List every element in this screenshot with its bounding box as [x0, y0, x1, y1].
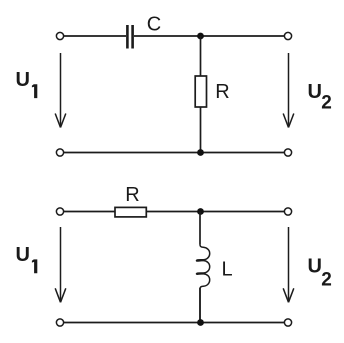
- node A junction dot: [197, 33, 204, 40]
- svg-text:U: U: [308, 81, 322, 103]
- node B junction dot: [197, 149, 204, 156]
- wire node D to bottom-right terminal (circuit 2): [201, 322, 285, 324]
- arrow U2 (circuit 2): [283, 227, 294, 302]
- terminal top-left (circuit 2): [56, 208, 63, 215]
- svg-text:R: R: [215, 81, 229, 103]
- label U1 subscript 1 (circuit 1): [32, 84, 37, 98]
- wire node A to resistor R (circuit 1): [200, 36, 202, 76]
- svg-text:R: R: [125, 184, 139, 206]
- svg-text:U: U: [16, 69, 30, 91]
- svg-text:C: C: [147, 14, 161, 36]
- arrow U2 (circuit 1): [283, 53, 294, 128]
- wire resistor R to node C (circuit 2): [146, 211, 200, 213]
- label U1 subscript 1 (circuit 2): [32, 259, 37, 273]
- terminal top-right (circuit 1): [284, 32, 291, 39]
- wire capacitor to node A: [134, 35, 201, 37]
- terminal top-right (circuit 2): [284, 208, 291, 215]
- svg-text:L: L: [222, 259, 233, 281]
- wire top-left to capacitor (circuit 1): [64, 35, 126, 37]
- wire top-left terminal to resistor R (circuit 2): [64, 211, 115, 213]
- arrow U1 (circuit 1): [55, 53, 66, 128]
- wire bottom-left terminal to node B (circuit 1): [64, 152, 201, 154]
- svg-text:2: 2: [321, 93, 332, 114]
- terminal bottom-right (circuit 1): [284, 149, 291, 156]
- node C junction dot: [197, 208, 204, 215]
- terminal bottom-left (circuit 1): [56, 149, 63, 156]
- node D junction dot: [197, 319, 204, 326]
- wire node A to top-right terminal: [201, 35, 285, 37]
- capacitor C: [127, 25, 132, 49]
- arrow U1 (circuit 2): [55, 227, 66, 302]
- svg-text:2: 2: [321, 270, 332, 291]
- terminal bottom-right (circuit 2): [284, 319, 291, 326]
- svg-text:U: U: [16, 244, 30, 266]
- resistor R (circuit 1): [195, 76, 206, 107]
- wire bottom-left terminal to node D (circuit 2): [64, 322, 201, 324]
- wire node C to top-right terminal (circuit 2): [201, 211, 285, 213]
- inductor L: [197, 245, 210, 323]
- resistor R (circuit 2): [115, 207, 146, 217]
- wire node C to inductor L: [199, 212, 201, 245]
- wire resistor R to node B: [200, 107, 202, 153]
- wire inductor L to node D: [199, 288, 201, 323]
- terminal bottom-left (circuit 2): [56, 319, 63, 326]
- terminal top-left (circuit 1): [56, 32, 63, 39]
- wire node B to bottom-right terminal (circuit 1): [201, 152, 285, 154]
- svg-text:U: U: [308, 256, 322, 278]
